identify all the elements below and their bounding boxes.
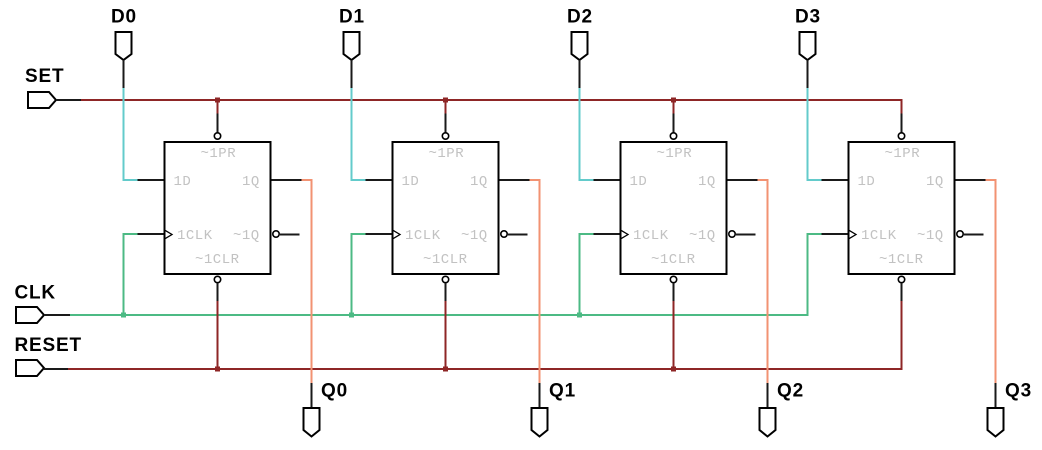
- output pin Q3: [988, 408, 1004, 437]
- wire 1D input stub U3: [594, 179, 620, 181]
- junction SET/PR U2: [443, 98, 448, 103]
- wire Q1 net horizontal: [530, 179, 541, 181]
- svg-text:RESET: RESET: [15, 335, 82, 356]
- output pin Q0: [304, 408, 320, 437]
- wire D0 net horizontal: [123, 179, 138, 181]
- bubble CLR input U1: [214, 276, 220, 282]
- svg-text:CLK: CLK: [15, 283, 56, 304]
- clock edge triangle U4: [849, 230, 856, 238]
- wire ~1Q output stub U1: [280, 234, 300, 236]
- clock edge triangle U3: [621, 230, 628, 238]
- wire SET net horizontal: [81, 99, 903, 101]
- svg-text:~1Q: ~1Q: [689, 228, 716, 244]
- wire D3 net horizontal: [807, 179, 822, 181]
- svg-text:1Q: 1Q: [698, 174, 716, 190]
- input pin D0: [116, 32, 132, 60]
- input pin SET: [28, 92, 56, 108]
- junction CLK line U3: [577, 313, 582, 318]
- wire Q3 pin stub: [995, 383, 997, 408]
- wire CLK net horizontal U2: [351, 233, 366, 235]
- wire 1Q output stub U2: [500, 179, 530, 181]
- wire ~1Q output stub U4: [964, 234, 984, 236]
- wire 1Q output stub U4: [956, 179, 986, 181]
- bubble PR input U2: [442, 133, 448, 139]
- svg-text:~1CLR: ~1CLR: [195, 252, 240, 268]
- flip-flop U3 box: [621, 142, 727, 274]
- wire CLR to RESET U4 (net colored): [901, 301, 903, 370]
- svg-text:1D: 1D: [402, 174, 420, 190]
- wire Q0 net vertical: [311, 179, 313, 383]
- wire CLR to RESET U2 (net colored): [445, 301, 447, 370]
- wire CLK net horizontal: [70, 314, 809, 316]
- svg-text:~1CLR: ~1CLR: [423, 252, 468, 268]
- wire CLK net horizontal U1: [123, 233, 138, 235]
- flip-flop U1 box: [165, 142, 271, 274]
- wire 1D input stub U1: [138, 179, 164, 181]
- input pin D3: [800, 32, 816, 60]
- wire D3 net vertical: [807, 88, 809, 181]
- wire ~1Q output stub U2: [508, 234, 528, 236]
- flip-flop U4 box: [849, 142, 955, 274]
- svg-text:~1PR: ~1PR: [201, 146, 237, 162]
- svg-text:~1CLR: ~1CLR: [651, 252, 696, 268]
- wire ~1Q output stub U3: [736, 234, 756, 236]
- wire SET pin stub: [56, 99, 81, 101]
- clock edge triangle U2: [393, 230, 400, 238]
- svg-text:D0: D0: [111, 6, 137, 27]
- svg-text:1CLK: 1CLK: [405, 228, 441, 244]
- svg-text:1Q: 1Q: [470, 174, 488, 190]
- bubble ~1Q output U4: [957, 231, 963, 237]
- wire CLR pin stub U1: [217, 283, 219, 301]
- bubble CLR input U2: [442, 276, 448, 282]
- wire CLK net riser U2: [351, 233, 353, 316]
- wire CLK net horizontal U4: [807, 233, 822, 235]
- wire 1Q output stub U3: [728, 179, 758, 181]
- wire CLK net riser U3: [579, 233, 581, 316]
- svg-text:D3: D3: [795, 6, 821, 27]
- wire Q0 pin stub: [311, 383, 313, 408]
- svg-text:1Q: 1Q: [242, 174, 260, 190]
- svg-text:1CLK: 1CLK: [633, 228, 669, 244]
- wire CLR pin stub U4: [901, 283, 903, 301]
- svg-text:~1PR: ~1PR: [429, 146, 465, 162]
- wire D0 net vertical: [123, 88, 125, 181]
- wire CLR pin stub U2: [445, 283, 447, 301]
- wire PR pin stub U2: [445, 114, 447, 133]
- input pin CLK: [16, 307, 44, 323]
- junction CLK line U2: [349, 313, 354, 318]
- wire SET to PR U4 (net colored): [901, 100, 903, 114]
- svg-text:Q3: Q3: [1005, 381, 1032, 402]
- wire 1D input stub U4: [822, 179, 848, 181]
- bubble PR input U3: [670, 133, 676, 139]
- wire D1 net vertical: [351, 88, 353, 181]
- svg-text:1D: 1D: [858, 174, 876, 190]
- bubble PR input U1: [214, 133, 220, 139]
- junction RESET/CLR U3: [671, 367, 676, 372]
- wire D0 pin stub: [123, 60, 125, 88]
- svg-text:Q0: Q0: [321, 381, 348, 402]
- junction CLK line U1: [121, 313, 126, 318]
- flip-flop U2 box: [393, 142, 499, 274]
- wire RESET net horizontal: [68, 368, 903, 370]
- wire PR pin stub U4: [901, 114, 903, 133]
- junction SET/PR U1: [215, 98, 220, 103]
- bubble CLR input U4: [898, 276, 904, 282]
- wire D2 pin stub: [579, 60, 581, 88]
- svg-text:D1: D1: [339, 6, 365, 27]
- bubble ~1Q output U3: [729, 231, 735, 237]
- wire CLR to RESET U1 (net colored): [217, 301, 219, 370]
- svg-text:SET: SET: [25, 66, 64, 87]
- input pin D1: [344, 32, 360, 60]
- wire CLK net riser U4: [807, 233, 809, 316]
- wire 1CLK input stub U1: [138, 233, 164, 235]
- wire 1CLK input stub U3: [594, 233, 620, 235]
- svg-text:~1Q: ~1Q: [917, 228, 944, 244]
- input pin RESET: [16, 360, 44, 376]
- wire PR pin stub U1: [217, 114, 219, 133]
- output pin Q2: [760, 408, 776, 437]
- svg-text:Q2: Q2: [777, 381, 804, 402]
- wire D1 net horizontal: [351, 179, 366, 181]
- svg-text:Q1: Q1: [549, 381, 576, 402]
- output pin Q1: [532, 408, 548, 437]
- svg-text:~1PR: ~1PR: [657, 146, 693, 162]
- wire D3 pin stub: [807, 60, 809, 88]
- junction RESET/CLR U2: [443, 367, 448, 372]
- wire CLK net riser U1: [123, 233, 125, 316]
- wire SET to PR U3 (net colored): [673, 100, 675, 114]
- wire Q2 pin stub: [767, 383, 769, 408]
- input pin D2: [572, 32, 588, 60]
- wire SET to PR U1 (net colored): [217, 100, 219, 114]
- wire CLK pin stub: [44, 314, 70, 316]
- svg-text:~1PR: ~1PR: [885, 146, 921, 162]
- svg-text:1D: 1D: [174, 174, 192, 190]
- wire CLK net horizontal U3: [579, 233, 594, 235]
- wire CLR to RESET U3 (net colored): [673, 301, 675, 370]
- svg-text:1CLK: 1CLK: [861, 228, 897, 244]
- bubble ~1Q output U1: [273, 231, 279, 237]
- wire Q3 net vertical: [995, 179, 997, 383]
- svg-text:D2: D2: [567, 6, 593, 27]
- wire Q2 net vertical: [767, 179, 769, 383]
- svg-text:~1Q: ~1Q: [233, 228, 260, 244]
- wire Q0 net horizontal: [302, 179, 313, 181]
- bubble ~1Q output U2: [501, 231, 507, 237]
- wire Q1 pin stub: [539, 383, 541, 408]
- wire D2 net vertical: [579, 88, 581, 181]
- junction SET/PR U3: [671, 98, 676, 103]
- bubble PR input U4: [898, 133, 904, 139]
- svg-text:~1Q: ~1Q: [461, 228, 488, 244]
- wire Q2 net horizontal: [758, 179, 769, 181]
- wire 1CLK input stub U2: [366, 233, 392, 235]
- wire 1Q output stub U1: [272, 179, 302, 181]
- svg-text:~1CLR: ~1CLR: [879, 252, 924, 268]
- wire 1D input stub U2: [366, 179, 392, 181]
- wire SET to PR U2 (net colored): [445, 100, 447, 114]
- wire CLR pin stub U3: [673, 283, 675, 301]
- wire PR pin stub U3: [673, 114, 675, 133]
- wire 1CLK input stub U4: [822, 233, 848, 235]
- bubble CLR input U3: [670, 276, 676, 282]
- clock edge triangle U1: [165, 230, 172, 238]
- wire Q1 net vertical: [539, 179, 541, 383]
- wire D1 pin stub: [351, 60, 353, 88]
- wire D2 net horizontal: [579, 179, 594, 181]
- svg-text:1CLK: 1CLK: [177, 228, 213, 244]
- wire RESET pin stub: [44, 368, 68, 370]
- svg-text:1Q: 1Q: [926, 174, 944, 190]
- svg-text:1D: 1D: [630, 174, 648, 190]
- wire Q3 net horizontal: [986, 179, 997, 181]
- junction RESET/CLR U1: [215, 367, 220, 372]
